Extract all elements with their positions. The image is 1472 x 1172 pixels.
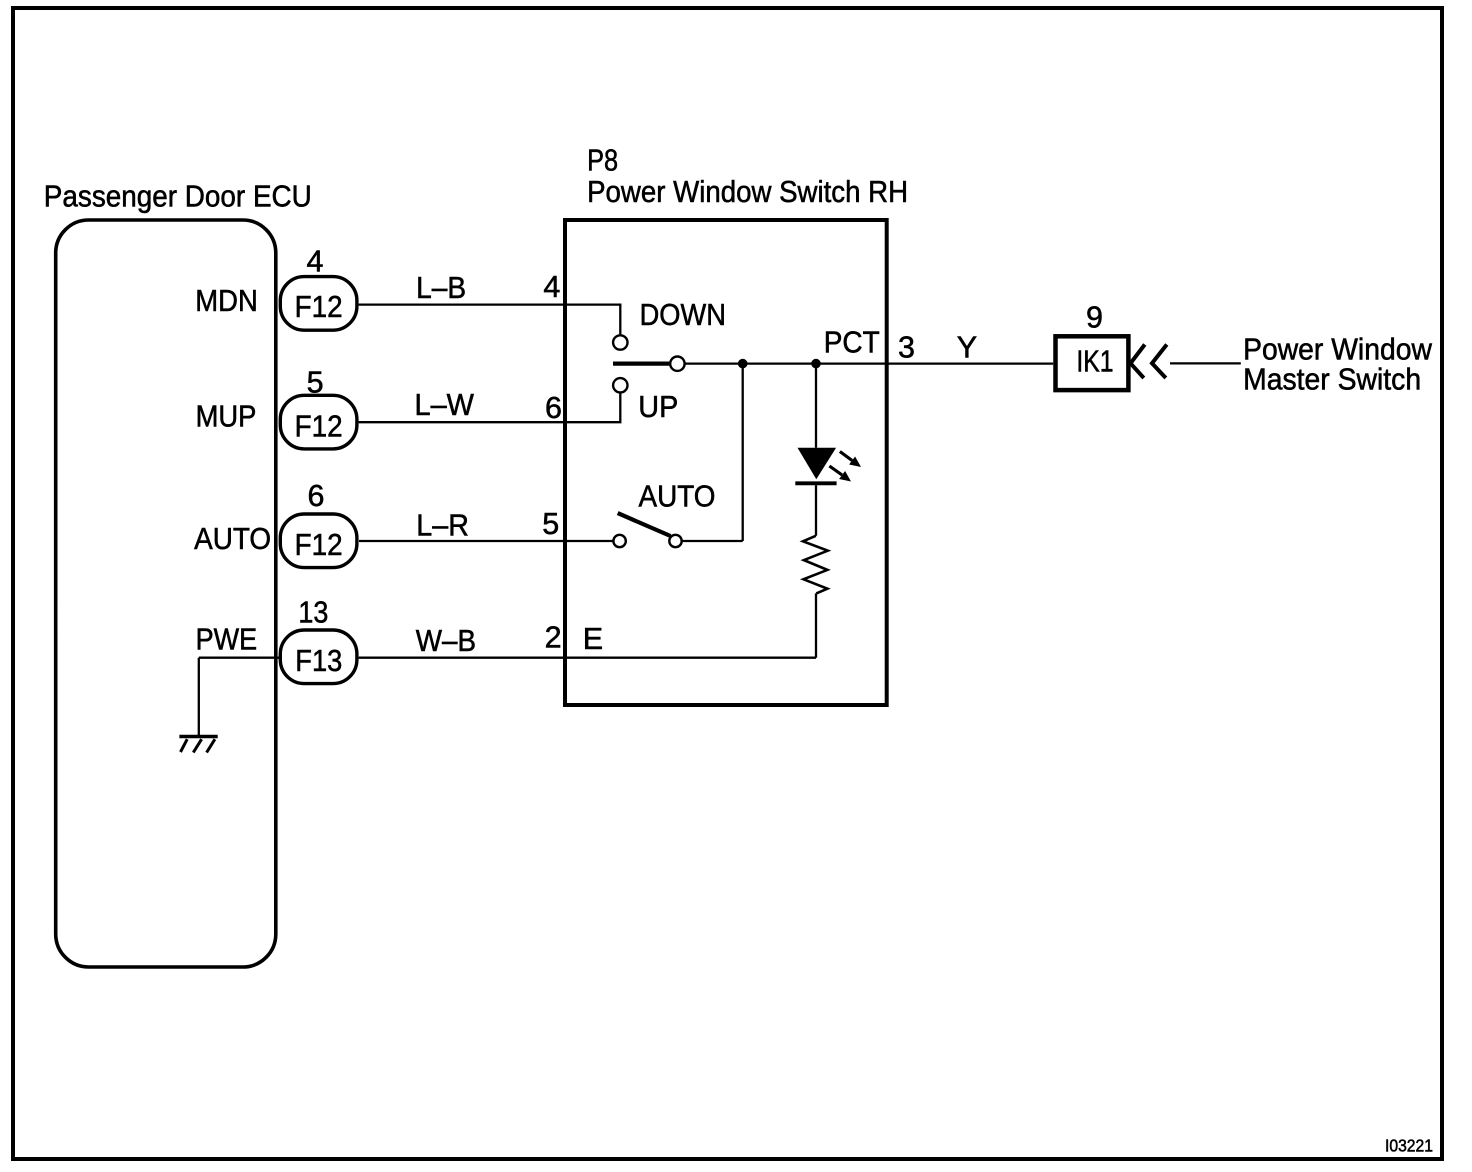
svg-text:Power Window Switch RH: Power Window Switch RH [587,175,908,209]
svg-text:I03221: I03221 [1385,1135,1433,1155]
svg-text:MUP: MUP [196,399,257,433]
svg-text:9: 9 [1086,300,1103,334]
svg-text:Master Switch: Master Switch [1243,362,1421,396]
svg-text:UP: UP [638,390,678,424]
svg-text:F12: F12 [295,409,343,443]
svg-text:IK1: IK1 [1076,345,1113,379]
svg-text:L–R: L–R [416,508,469,542]
svg-text:F13: F13 [295,644,342,678]
svg-text:6: 6 [545,391,562,425]
svg-text:4: 4 [543,270,560,304]
svg-text:PWE: PWE [196,623,258,657]
svg-text:F12: F12 [295,290,343,324]
svg-text:F12: F12 [295,528,343,562]
svg-text:W–B: W–B [416,624,476,658]
svg-text:Passenger Door ECU: Passenger Door ECU [44,180,312,214]
svg-text:6: 6 [308,479,325,513]
svg-text:2: 2 [545,621,562,655]
svg-text:PCT: PCT [824,326,880,360]
svg-text:5: 5 [307,365,324,399]
svg-text:5: 5 [542,507,559,541]
svg-text:P8: P8 [587,144,618,178]
svg-text:13: 13 [298,596,328,630]
svg-text:3: 3 [898,331,915,365]
svg-text:L–B: L–B [416,271,466,305]
svg-text:AUTO: AUTO [194,522,271,556]
svg-text:AUTO: AUTO [639,479,716,513]
svg-text:MDN: MDN [195,284,257,318]
svg-text:L–W: L–W [415,388,475,422]
svg-text:4: 4 [307,244,324,278]
svg-text:Y: Y [957,331,977,365]
svg-text:E: E [583,622,603,656]
svg-text:DOWN: DOWN [640,298,726,332]
